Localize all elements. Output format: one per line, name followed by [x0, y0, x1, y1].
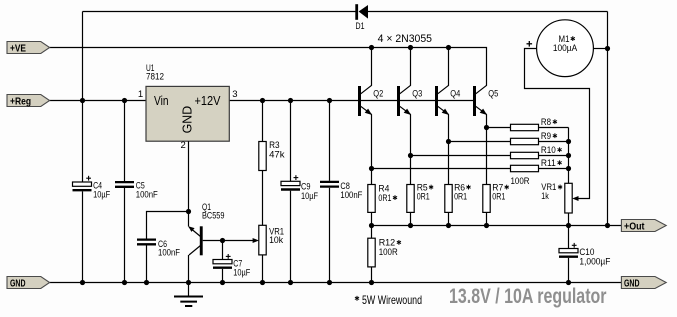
svg-text:Q5: Q5: [488, 88, 498, 99]
svg-text:GND: GND: [624, 277, 640, 289]
transistor Q1 BC559: [200, 226, 203, 255]
transistor Q5 2N3055: [473, 86, 476, 116]
junction VR1-1k bottom / C10: [566, 223, 571, 228]
junction R3 top: [260, 98, 265, 103]
svg-text:Q4: Q4: [450, 88, 460, 99]
node +Out tag: [621, 220, 666, 232]
junction C5 top: [122, 98, 127, 103]
junction R4 bottom: [369, 223, 374, 228]
svg-text:R10: R10: [541, 145, 556, 156]
junction C6 gnd: [144, 280, 149, 285]
svg-text:2: 2: [181, 140, 186, 151]
junction bus R11: [566, 166, 571, 171]
junction C9 gnd: [288, 280, 293, 285]
wire +Reg rail (tag to U1 pin 1): [50, 100, 146, 102]
junction R7 bottom: [484, 223, 489, 228]
transistor Q2 2N3055: [358, 86, 361, 116]
junction bus R9: [566, 139, 571, 144]
capacitor C10: [568, 226, 570, 249]
wire M1 right terminal: [593, 48, 607, 50]
svg-text:1: 1: [138, 89, 143, 100]
svg-text:7812: 7812: [146, 72, 164, 83]
junction Q2 emitter / R11: [369, 166, 374, 171]
capacitor C4: [82, 101, 84, 183]
svg-text:10µF: 10µF: [301, 191, 318, 202]
capacitor C9: [290, 101, 292, 182]
resistor R3 47k: [262, 101, 264, 142]
resistor R12 100R: [371, 226, 373, 239]
wire right vertical x=608 (top rail to +Out): [607, 12, 609, 226]
svg-text:GND: GND: [10, 277, 26, 289]
wire top rail left of D1: [83, 11, 356, 13]
junction Q1 base / C7: [220, 238, 225, 243]
svg-text:R9: R9: [541, 131, 551, 142]
svg-text:Q3: Q3: [412, 88, 422, 99]
potentiometer VR1 10k: [259, 225, 266, 255]
junction Q4 emitter / R9: [446, 139, 451, 144]
resistor R9 100R: [449, 141, 511, 143]
wire +Out rail: [372, 225, 622, 227]
svg-text:5W Wirewound: 5W Wirewound: [362, 293, 422, 307]
svg-text:4 × 2N3055: 4 × 2N3055: [378, 33, 432, 45]
transistor Q4 2N3055: [435, 86, 438, 116]
svg-text:10k: 10k: [269, 235, 283, 246]
capacitor C5: [124, 101, 126, 182]
junction Q1 collector gnd: [186, 280, 191, 285]
wire top rail right of D1: [368, 11, 608, 13]
svg-text:+VE: +VE: [10, 42, 26, 54]
svg-text:10µF: 10µF: [93, 189, 110, 200]
wire U1 pin 2 to Q1 emitter: [188, 141, 190, 226]
junction Q3 collector: [408, 45, 413, 50]
capacitor C6: [137, 238, 156, 240]
svg-text:BC559: BC559: [202, 211, 225, 222]
wire C6 branch: [147, 212, 189, 239]
svg-text:0R1: 0R1: [454, 192, 467, 203]
wire +VE rail: [50, 48, 487, 86]
svg-text:D1: D1: [356, 21, 365, 32]
note 5W wirewound: [355, 296, 359, 301]
junction R5 bottom: [408, 223, 413, 228]
resistor R4 0R1: [368, 185, 375, 213]
ground: [188, 283, 190, 297]
junction VR1-10k gnd: [260, 280, 265, 285]
svg-text:3: 3: [232, 89, 237, 100]
svg-text:Vin: Vin: [154, 94, 169, 108]
junction C8 top: [327, 98, 332, 103]
resistor R6 0R1: [445, 185, 452, 213]
svg-text:+Reg: +Reg: [10, 95, 31, 107]
wire M1 plus terminal to VR1 wiper: [525, 49, 590, 199]
junction bus R10: [566, 153, 571, 158]
wire ground rail: [50, 282, 622, 284]
junction C4 gnd: [80, 280, 85, 285]
junction Q5 emitter / R8: [484, 125, 489, 130]
junction Q3 emitter / R10: [408, 153, 413, 158]
junction C7 gnd: [220, 280, 225, 285]
svg-text:+12V: +12V: [195, 94, 222, 108]
svg-text:GND: GND: [181, 106, 195, 134]
svg-text:100R: 100R: [511, 176, 530, 187]
node +Reg input tag: [7, 95, 50, 107]
potentiometer VR1 1k: [565, 183, 572, 213]
junction x608 / +Out: [605, 223, 610, 228]
svg-text:13.8V / 10A regulator: 13.8V / 10A regulator: [449, 284, 607, 308]
junction Q2 collector: [369, 45, 374, 50]
svg-text:0R1: 0R1: [492, 192, 505, 203]
wire right bus to VR1: [568, 128, 570, 184]
svg-text:100µA: 100µA: [553, 43, 578, 54]
svg-text:0R1: 0R1: [417, 192, 430, 203]
capacitor C8: [329, 101, 331, 181]
capacitor C7: [222, 241, 224, 260]
regulator U1 7812: [146, 86, 229, 141]
svg-text:100nF: 100nF: [340, 190, 362, 201]
node GND left tag: [7, 277, 50, 289]
junction C5 gnd: [122, 280, 127, 285]
node +VE input tag: [7, 42, 50, 54]
junction C10 gnd: [566, 280, 571, 285]
wire left vertical x=82 (top rail to +Reg): [82, 12, 84, 101]
transistor Q3 2N3055: [397, 86, 400, 116]
resistor R11 100R: [372, 168, 511, 170]
junction C9 top: [288, 98, 293, 103]
resistor R7 0R1: [483, 185, 490, 213]
svg-text:47k: 47k: [269, 149, 285, 160]
junction U1 pin2 / C6: [186, 209, 191, 214]
svg-text:R11: R11: [541, 158, 556, 169]
svg-text:1k: 1k: [541, 191, 549, 202]
junction M1 right: [605, 46, 610, 51]
svg-text:0R1: 0R1: [378, 193, 391, 204]
junction Q4 collector: [446, 45, 451, 50]
svg-text:10µF: 10µF: [233, 267, 250, 278]
diode D1: [355, 4, 358, 20]
junction C8 gnd: [327, 280, 332, 285]
junction R12 gnd: [369, 280, 374, 285]
wire U1 output / base bus: [229, 100, 476, 102]
svg-text:100R: 100R: [379, 247, 398, 258]
svg-text:100nF: 100nF: [158, 248, 180, 259]
svg-text:R8: R8: [541, 117, 551, 128]
junction R6 bottom: [446, 223, 451, 228]
svg-text:1,000µF: 1,000µF: [579, 256, 610, 267]
svg-text:100nF: 100nF: [136, 189, 158, 200]
resistor R8 100R: [487, 127, 511, 129]
svg-text:+Out: +Out: [624, 220, 645, 232]
meter M1 100uA: [537, 20, 594, 77]
junction +Reg / x82: [80, 98, 85, 103]
resistor R5 0R1: [407, 185, 414, 213]
resistor R10 100R: [411, 155, 511, 157]
svg-text:Q2: Q2: [373, 88, 383, 99]
node GND right tag: [621, 277, 666, 289]
